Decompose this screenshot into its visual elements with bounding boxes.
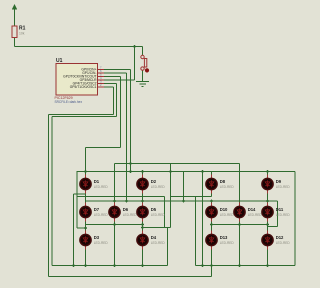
wire switch to ground xyxy=(142,70,144,81)
resistor R1 xyxy=(12,26,17,38)
wire GP5 pin to x113.5 xyxy=(104,86,114,88)
svg-text:D2: D2 xyxy=(151,179,157,184)
LED D3 xyxy=(80,231,108,250)
node junction (202.5,171.5) xyxy=(201,170,204,173)
wire bus A tops D1 D2 D8 D9 xyxy=(77,171,296,173)
node junction (211.5,224.5) xyxy=(210,223,213,226)
node junction (85.5,228) xyxy=(84,227,87,230)
LED D12 xyxy=(262,231,290,250)
node junction (126.5,201) xyxy=(125,200,128,203)
svg-text:LED-RED: LED-RED xyxy=(220,213,235,217)
wire D8 column xyxy=(211,172,213,197)
node junction (85.5,171.5) xyxy=(84,170,87,173)
svg-text:R1: R1 xyxy=(19,26,26,32)
U1 pin 2 stub xyxy=(98,86,104,88)
svg-text:LED-RED: LED-RED xyxy=(94,241,109,245)
svg-text:D11: D11 xyxy=(276,207,284,212)
wire D1 bottom to left xyxy=(74,193,86,195)
wire D2 D5 D4 column xyxy=(142,172,144,266)
svg-text:GP5/T1CKI/OSC1: GP5/T1CKI/OSC1 xyxy=(70,85,97,89)
node junction (239.5,265.5) xyxy=(238,264,241,267)
wire D1 D7 D3 column xyxy=(85,148,87,266)
LED D13 xyxy=(206,231,234,250)
wire y196.5 branch to bracket xyxy=(77,196,165,198)
U1 pin 4 stub xyxy=(98,79,104,81)
svg-text:D13: D13 xyxy=(220,235,228,240)
svg-text:D6: D6 xyxy=(123,207,129,212)
node junction (114.5,265.5) xyxy=(113,264,116,267)
svg-text:LED-RED: LED-RED xyxy=(276,241,291,245)
push button SW top terminal xyxy=(141,55,144,58)
wire top rail xyxy=(15,46,143,48)
wire GP4 pin to x116.5 xyxy=(104,83,117,85)
svg-text:D4: D4 xyxy=(151,235,157,240)
svg-text:PIC12F629: PIC12F629 xyxy=(55,96,73,100)
node junction (202.5,265.5) xyxy=(201,264,204,267)
svg-text:LED-RED: LED-RED xyxy=(220,185,235,189)
push button SW actuator xyxy=(144,59,146,68)
svg-text:LED-RED: LED-RED xyxy=(151,213,166,217)
wire GP4 drop to bottom bus1 xyxy=(51,117,53,266)
wire bus A right edge drop xyxy=(294,172,296,266)
LED D1 xyxy=(80,175,108,194)
push button SW bottom terminal xyxy=(141,67,144,70)
wire GP1 pin to x126.5 xyxy=(104,72,127,74)
wire bottom bus right die xyxy=(196,265,296,267)
svg-text:D14: D14 xyxy=(248,207,256,212)
push button SW red knob xyxy=(145,68,149,72)
svg-text:LED-RED: LED-RED xyxy=(276,213,291,217)
wire D9 D11 D12 column xyxy=(267,172,269,266)
wire D5 bottom D4 top link to bracket xyxy=(143,227,171,229)
svg-text:D7: D7 xyxy=(94,207,100,212)
node junction (267.5,224.5) xyxy=(266,223,269,226)
svg-text:LED-RED: LED-RED xyxy=(248,213,263,217)
wire D10 D13 column xyxy=(211,201,213,266)
wire GP5 down xyxy=(113,87,115,115)
chip U1 PIC12F629 body xyxy=(56,64,98,96)
svg-text:SRCFILE=dark.hex: SRCFILE=dark.hex xyxy=(55,100,83,104)
wire right die jog down xyxy=(277,201,279,227)
LED D6 xyxy=(109,203,137,222)
LED D11 xyxy=(262,203,290,222)
wire GP2 pin to x120.5 xyxy=(104,76,121,78)
svg-text:D1: D1 xyxy=(94,179,100,184)
svg-text:LED-RED: LED-RED xyxy=(123,213,138,217)
U1 pin 5 stub xyxy=(98,76,104,78)
LED D8 xyxy=(206,175,234,194)
wire bottom bus2 xyxy=(49,276,212,278)
node junction (142.5,265.5) xyxy=(141,264,144,267)
svg-text:LED-RED: LED-RED xyxy=(94,213,109,217)
power symbol VCC arrow xyxy=(12,4,18,10)
wire power to R1 xyxy=(14,10,16,26)
node junction (267.5,265.5) xyxy=(266,264,269,267)
node junction (211.5,201) xyxy=(210,200,213,203)
wire D1 bottom drop to bus1 xyxy=(73,194,75,266)
U1 pin 7 stub xyxy=(98,69,104,71)
wire GP0 net to D6 and D14 xyxy=(115,163,240,165)
svg-text:LED-RED: LED-RED xyxy=(94,185,109,189)
LED D14 xyxy=(234,203,262,222)
U1 pin 6 stub xyxy=(98,72,104,74)
LED D5 xyxy=(137,203,165,222)
wire bus A left corner drop xyxy=(76,172,78,229)
svg-text:U1: U1 xyxy=(56,58,63,64)
wire GP1 down to row bus xyxy=(126,73,128,201)
node junction (267.5,171.5) xyxy=(266,170,269,173)
node junction (85.5,265.5) xyxy=(84,264,87,267)
wire GP4 down xyxy=(116,84,118,117)
LED D7 xyxy=(80,203,108,222)
wire bottom bus1 left die xyxy=(52,265,168,267)
wire row top bus across both dice xyxy=(86,200,278,202)
wire MCLR pin to junction xyxy=(104,79,135,81)
wire jog to D11 column xyxy=(268,226,278,228)
LED D2 xyxy=(137,175,165,194)
wire x167.5 to bus1 right end xyxy=(167,228,169,266)
node junction (114.5,201) xyxy=(113,200,116,203)
wire left side of right die xyxy=(202,172,204,266)
svg-text:10k: 10k xyxy=(19,32,25,36)
wire D8 bottom link xyxy=(171,196,212,198)
wire x170.5 drop xyxy=(170,164,172,228)
node GP0 branch xyxy=(129,162,132,165)
wire R1 to horizontal rail xyxy=(14,38,16,47)
svg-text:D5: D5 xyxy=(151,207,157,212)
svg-text:LED-RED: LED-RED xyxy=(220,241,235,245)
node junction (211.5,265.5) xyxy=(210,264,213,267)
svg-text:D9: D9 xyxy=(276,179,282,184)
node junction (130.5,171.5) xyxy=(129,170,132,173)
wire rail down to switch top xyxy=(142,47,144,56)
node junction (142.5,227.5) xyxy=(141,226,144,229)
LED D10 xyxy=(206,203,234,222)
ground symbol xyxy=(136,81,149,83)
node junction (142.5,171.5) xyxy=(141,170,144,173)
node junction (183.5,201) xyxy=(182,200,185,203)
node junction (239.5,224.5) xyxy=(238,223,241,226)
wire bus A drop jog to D3 column xyxy=(77,227,86,229)
svg-text:LED-RED: LED-RED xyxy=(151,185,166,189)
wire D6 column xyxy=(114,164,116,266)
U1 pin 3 stub xyxy=(98,83,104,85)
LED D4 xyxy=(137,231,165,250)
wire GP2 down xyxy=(120,77,122,148)
node junction (142.5,201) xyxy=(141,200,144,203)
wire GP5 drop to bottom bus2 xyxy=(48,115,50,277)
wire bus A to right row bus xyxy=(183,172,185,202)
node junction MCLR pullup xyxy=(133,45,136,48)
node junction (267.5,201) xyxy=(266,200,269,203)
wire left die row bottom bus xyxy=(86,224,143,226)
svg-text:D3: D3 xyxy=(94,235,100,240)
node junction (73.5,265.5) xyxy=(72,264,75,267)
svg-text:D12: D12 xyxy=(276,235,284,240)
svg-text:D8: D8 xyxy=(220,179,226,184)
wire bracket x164.5 xyxy=(164,197,166,229)
node junction (170.5,171.5) xyxy=(169,170,172,173)
wire GP4 left to left drop xyxy=(52,116,117,118)
wire x195.5 drop to right bus xyxy=(195,197,197,266)
wire GP0 pin to x130.5 xyxy=(104,69,131,71)
node junction (114.5,224.5) xyxy=(113,223,116,226)
svg-text:LED-RED: LED-RED xyxy=(151,241,166,245)
svg-text:LED-RED: LED-RED xyxy=(276,185,291,189)
svg-text:D10: D10 xyxy=(220,207,228,212)
LED D9 xyxy=(262,175,290,194)
wire junction down to MCLR xyxy=(134,47,136,81)
wire D14 column xyxy=(239,164,241,266)
wire GP0 down to top bus xyxy=(130,70,132,172)
wire GP5 left to far-left drop xyxy=(49,114,114,116)
wire right die row bottom bus xyxy=(212,224,268,226)
node junction (142.5,224.5) xyxy=(141,223,144,226)
wire bus2 up to busR xyxy=(211,266,213,277)
wire GP2 left to D1 column xyxy=(86,147,121,149)
